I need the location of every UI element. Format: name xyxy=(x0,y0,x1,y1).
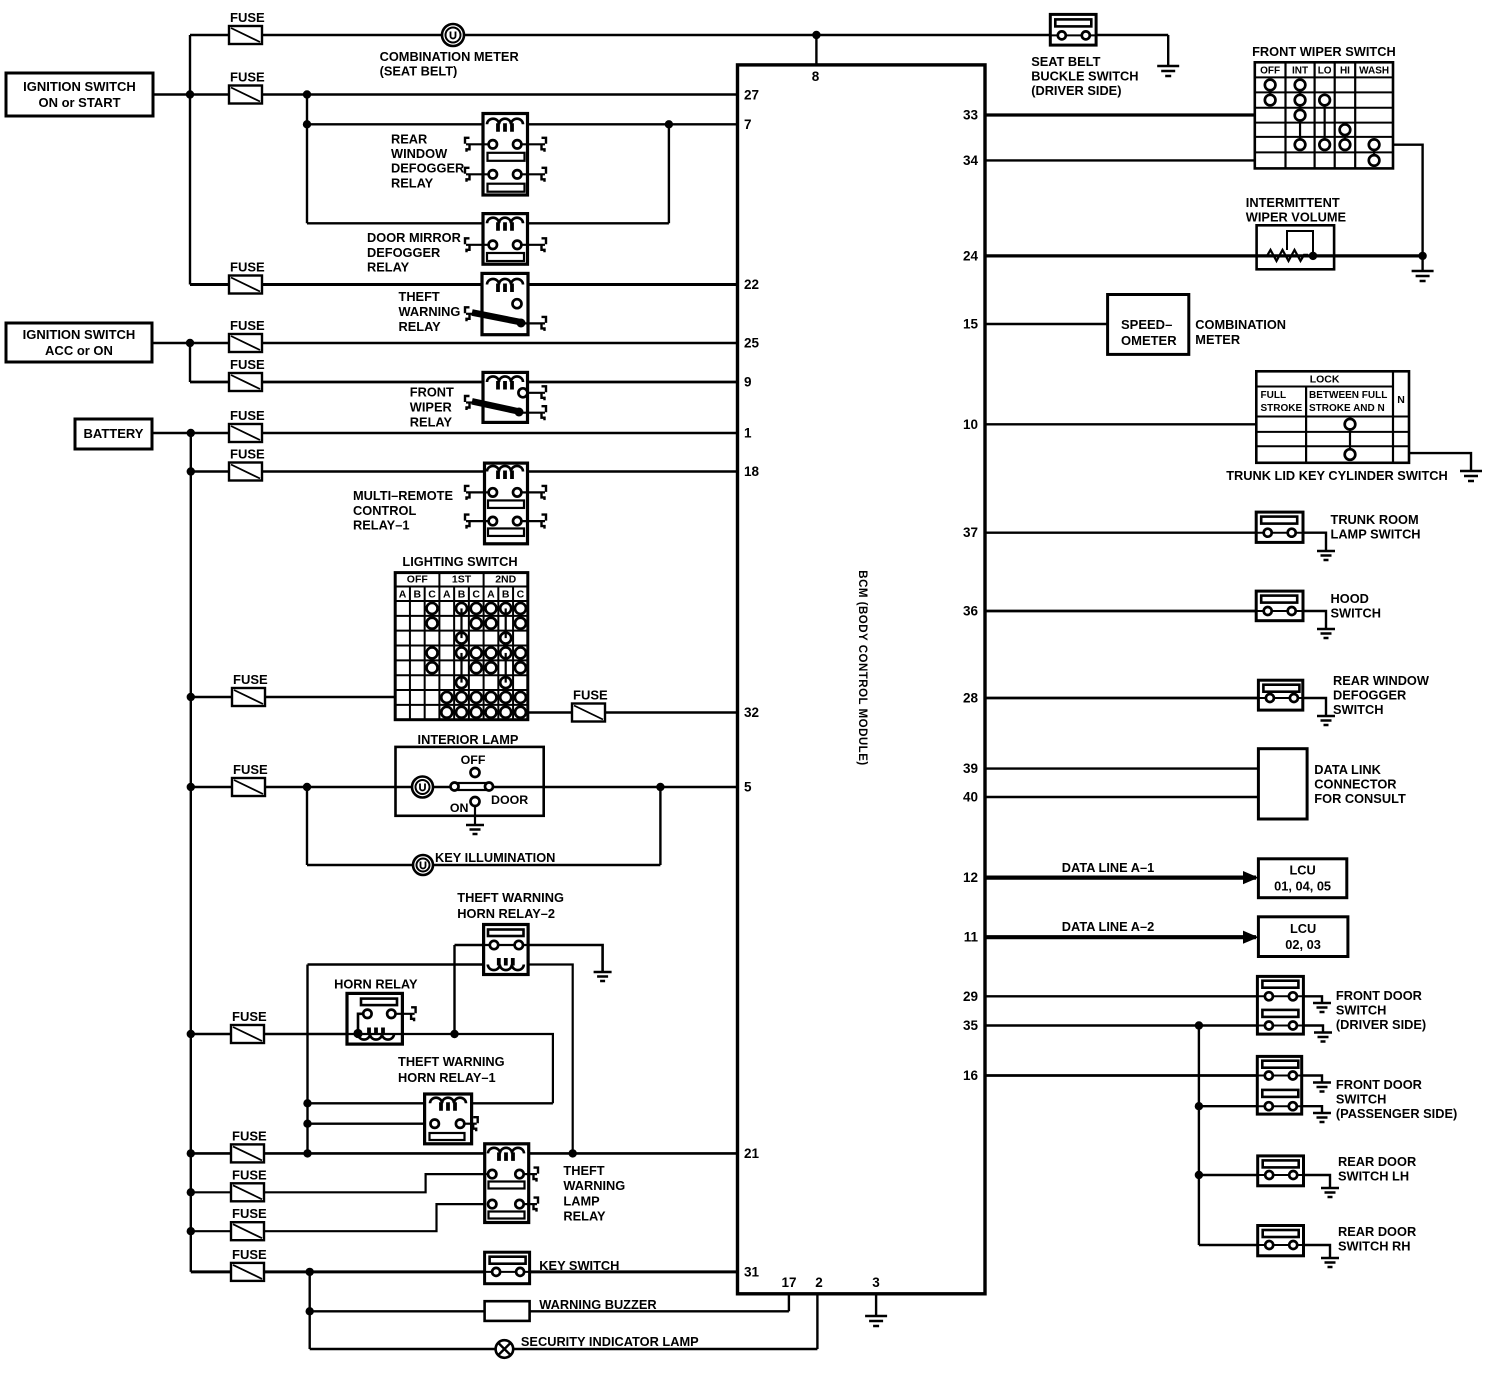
svg-text:REAR DOOR: REAR DOOR xyxy=(1338,1154,1416,1169)
svg-text:32: 32 xyxy=(744,705,759,720)
svg-text:THEFT WARNING: THEFT WARNING xyxy=(457,890,564,905)
svg-text:FUSE: FUSE xyxy=(230,70,265,85)
svg-text:36: 36 xyxy=(963,604,979,619)
svg-text:HORN RELAY–2: HORN RELAY–2 xyxy=(457,906,555,921)
svg-text:FUSE: FUSE xyxy=(573,688,608,703)
svg-text:28: 28 xyxy=(963,691,979,706)
svg-text:B: B xyxy=(458,589,466,601)
svg-text:1ST: 1ST xyxy=(452,574,472,586)
svg-text:BETWEEN FULL: BETWEEN FULL xyxy=(1309,390,1387,401)
svg-text:37: 37 xyxy=(963,525,978,540)
svg-text:RELAY: RELAY xyxy=(399,319,442,334)
svg-text:FRONT DOOR: FRONT DOOR xyxy=(1336,1077,1422,1092)
svg-text:25: 25 xyxy=(744,336,760,351)
svg-text:01, 04, 05: 01, 04, 05 xyxy=(1274,879,1331,894)
svg-text:KEY ILLUMINATION: KEY ILLUMINATION xyxy=(435,850,555,865)
svg-text:FUSE: FUSE xyxy=(232,1247,267,1262)
svg-text:12: 12 xyxy=(963,870,978,885)
svg-text:B: B xyxy=(414,589,422,601)
svg-text:15: 15 xyxy=(963,317,979,332)
svg-text:RELAY: RELAY xyxy=(391,175,434,190)
svg-text:10: 10 xyxy=(963,417,978,432)
svg-text:FUSE: FUSE xyxy=(230,10,265,25)
svg-text:ACC or ON: ACC or ON xyxy=(45,343,113,358)
svg-text:BATTERY: BATTERY xyxy=(84,426,144,441)
svg-text:40: 40 xyxy=(963,790,978,805)
svg-text:WARNING: WARNING xyxy=(563,1178,625,1193)
svg-text:BCM (BODY CONTROL MODULE): BCM (BODY CONTROL MODULE) xyxy=(856,570,868,765)
svg-text:8: 8 xyxy=(812,69,820,84)
svg-text:A: A xyxy=(443,589,451,601)
svg-text:LCU: LCU xyxy=(1289,863,1315,878)
svg-text:33: 33 xyxy=(963,108,979,123)
svg-text:MULTI–REMOTE: MULTI–REMOTE xyxy=(353,488,453,503)
svg-text:DOOR: DOOR xyxy=(491,793,528,807)
svg-text:34: 34 xyxy=(963,153,979,168)
svg-text:WASH: WASH xyxy=(1359,66,1389,77)
svg-text:(DRIVER SIDE): (DRIVER SIDE) xyxy=(1336,1017,1426,1032)
svg-text:THEFT: THEFT xyxy=(399,289,440,304)
svg-text:SEAT BELT: SEAT BELT xyxy=(1031,54,1100,69)
svg-text:C: C xyxy=(472,589,480,601)
svg-text:COMBINATION METER: COMBINATION METER xyxy=(380,49,519,64)
svg-text:16: 16 xyxy=(963,1068,979,1083)
svg-text:29: 29 xyxy=(963,989,978,1004)
svg-text:STROKE: STROKE xyxy=(1261,403,1303,414)
svg-text:FUSE: FUSE xyxy=(232,1009,267,1024)
svg-text:COMBINATION: COMBINATION xyxy=(1195,317,1286,332)
svg-text:22: 22 xyxy=(744,277,759,292)
svg-text:FUSE: FUSE xyxy=(230,447,265,462)
svg-text:FUSE: FUSE xyxy=(233,672,268,687)
svg-text:REAR: REAR xyxy=(391,132,427,147)
svg-text:DATA LINE A–2: DATA LINE A–2 xyxy=(1062,919,1154,934)
svg-text:STROKE AND N: STROKE AND N xyxy=(1309,403,1385,414)
svg-text:A: A xyxy=(487,589,495,601)
svg-text:2ND: 2ND xyxy=(495,574,516,586)
svg-text:CONTROL: CONTROL xyxy=(353,503,416,518)
svg-text:FOR CONSULT: FOR CONSULT xyxy=(1314,791,1406,806)
svg-text:21: 21 xyxy=(744,1146,760,1161)
svg-text:LAMP SWITCH: LAMP SWITCH xyxy=(1331,527,1421,542)
svg-text:REAR WINDOW: REAR WINDOW xyxy=(1333,673,1430,688)
svg-text:9: 9 xyxy=(744,375,752,390)
svg-text:CONNECTOR: CONNECTOR xyxy=(1314,777,1396,792)
svg-text:FUSE: FUSE xyxy=(230,357,265,372)
svg-text:A: A xyxy=(399,589,407,601)
svg-text:FUSE: FUSE xyxy=(230,318,265,333)
svg-text:WIPER: WIPER xyxy=(410,400,452,415)
svg-text:35: 35 xyxy=(963,1018,979,1033)
svg-text:SWITCH: SWITCH xyxy=(1336,1092,1386,1107)
svg-text:5: 5 xyxy=(744,780,752,795)
svg-text:INTERIOR LAMP: INTERIOR LAMP xyxy=(418,732,519,747)
svg-text:17: 17 xyxy=(781,1275,796,1290)
svg-text:11: 11 xyxy=(964,930,979,945)
svg-text:2: 2 xyxy=(815,1275,823,1290)
svg-text:HOOD: HOOD xyxy=(1331,591,1369,606)
svg-text:DEFOGGER: DEFOGGER xyxy=(367,245,440,260)
svg-text:IGNITION SWITCH: IGNITION SWITCH xyxy=(23,327,136,342)
svg-text:(PASSENGER SIDE): (PASSENGER SIDE) xyxy=(1336,1106,1457,1121)
svg-text:LOCK: LOCK xyxy=(1310,374,1340,386)
svg-text:FUSE: FUSE xyxy=(232,1167,267,1182)
svg-text:OFF: OFF xyxy=(1260,66,1280,77)
svg-text:DATA LINK: DATA LINK xyxy=(1314,762,1381,777)
svg-text:24: 24 xyxy=(963,248,979,263)
svg-text:OMETER: OMETER xyxy=(1121,333,1177,348)
svg-text:FUSE: FUSE xyxy=(230,260,265,275)
svg-text:RELAY–1: RELAY–1 xyxy=(353,518,409,533)
svg-text:TRUNK ROOM: TRUNK ROOM xyxy=(1331,512,1419,527)
svg-text:FUSE: FUSE xyxy=(230,408,265,423)
svg-text:HORN RELAY: HORN RELAY xyxy=(334,977,418,992)
svg-text:KEY SWITCH: KEY SWITCH xyxy=(539,1258,619,1273)
svg-text:DEFOGGER: DEFOGGER xyxy=(391,161,464,176)
svg-text:FUSE: FUSE xyxy=(232,1128,267,1143)
svg-text:SWITCH LH: SWITCH LH xyxy=(1338,1169,1409,1184)
svg-text:HORN RELAY–1: HORN RELAY–1 xyxy=(398,1070,496,1085)
svg-text:IGNITION SWITCH: IGNITION SWITCH xyxy=(23,79,136,94)
svg-text:02, 03: 02, 03 xyxy=(1285,937,1321,952)
svg-text:LIGHTING SWITCH: LIGHTING SWITCH xyxy=(402,554,517,569)
svg-text:31: 31 xyxy=(744,1264,760,1279)
svg-text:OFF: OFF xyxy=(461,753,486,767)
svg-text:N: N xyxy=(1397,394,1405,406)
svg-text:SWITCH: SWITCH xyxy=(1331,606,1381,621)
svg-text:WIPER VOLUME: WIPER VOLUME xyxy=(1246,210,1347,225)
svg-text:1: 1 xyxy=(744,426,752,441)
svg-text:LCU: LCU xyxy=(1290,921,1316,936)
svg-text:WARNING: WARNING xyxy=(399,304,461,319)
svg-text:3: 3 xyxy=(872,1275,880,1290)
svg-text:LO: LO xyxy=(1318,66,1332,77)
svg-text:TRUNK LID KEY CYLINDER SWITCH: TRUNK LID KEY CYLINDER SWITCH xyxy=(1226,468,1448,483)
svg-text:RELAY: RELAY xyxy=(410,415,453,430)
svg-text:SWITCH: SWITCH xyxy=(1336,1003,1386,1018)
svg-text:THEFT: THEFT xyxy=(563,1163,604,1178)
svg-text:RELAY: RELAY xyxy=(563,1209,606,1224)
svg-text:ON or START: ON or START xyxy=(38,95,120,110)
svg-text:SECURITY INDICATOR LAMP: SECURITY INDICATOR LAMP xyxy=(521,1334,699,1349)
svg-text:BUCKLE SWITCH: BUCKLE SWITCH xyxy=(1031,69,1138,84)
svg-text:B: B xyxy=(502,589,510,601)
svg-text:ON: ON xyxy=(450,801,469,815)
svg-text:FRONT DOOR: FRONT DOOR xyxy=(1336,988,1422,1003)
svg-text:FUSE: FUSE xyxy=(232,1206,267,1221)
svg-text:HI: HI xyxy=(1340,66,1350,77)
svg-text:SWITCH: SWITCH xyxy=(1333,702,1383,717)
svg-text:SWITCH RH: SWITCH RH xyxy=(1338,1239,1411,1254)
svg-text:REAR DOOR: REAR DOOR xyxy=(1338,1224,1416,1239)
svg-text:39: 39 xyxy=(963,761,978,776)
svg-text:C: C xyxy=(517,589,525,601)
svg-text:FRONT: FRONT xyxy=(410,385,454,400)
svg-text:(SEAT BELT): (SEAT BELT) xyxy=(380,64,458,79)
svg-text:WARNING BUZZER: WARNING BUZZER xyxy=(539,1297,656,1312)
svg-text:7: 7 xyxy=(744,117,752,132)
svg-text:FUSE: FUSE xyxy=(233,762,268,777)
svg-text:18: 18 xyxy=(744,464,760,479)
svg-text:DOOR MIRROR: DOOR MIRROR xyxy=(367,230,461,245)
svg-text:INT: INT xyxy=(1292,66,1308,77)
svg-text:RELAY: RELAY xyxy=(367,260,410,275)
svg-text:WINDOW: WINDOW xyxy=(391,146,448,161)
svg-text:FRONT WIPER SWITCH: FRONT WIPER SWITCH xyxy=(1252,44,1396,59)
svg-text:OFF: OFF xyxy=(407,574,429,586)
svg-text:SPEED–: SPEED– xyxy=(1121,317,1172,332)
svg-text:METER: METER xyxy=(1195,332,1240,347)
svg-text:27: 27 xyxy=(744,88,759,103)
svg-text:FULL: FULL xyxy=(1261,390,1287,401)
svg-text:LAMP: LAMP xyxy=(563,1193,600,1208)
svg-text:DEFOGGER: DEFOGGER xyxy=(1333,688,1406,703)
svg-text:C: C xyxy=(428,589,436,601)
svg-text:THEFT WARNING: THEFT WARNING xyxy=(398,1054,505,1069)
svg-text:INTERMITTENT: INTERMITTENT xyxy=(1246,195,1340,210)
svg-text:(DRIVER SIDE): (DRIVER SIDE) xyxy=(1031,83,1121,98)
svg-text:DATA LINE A–1: DATA LINE A–1 xyxy=(1062,860,1154,875)
